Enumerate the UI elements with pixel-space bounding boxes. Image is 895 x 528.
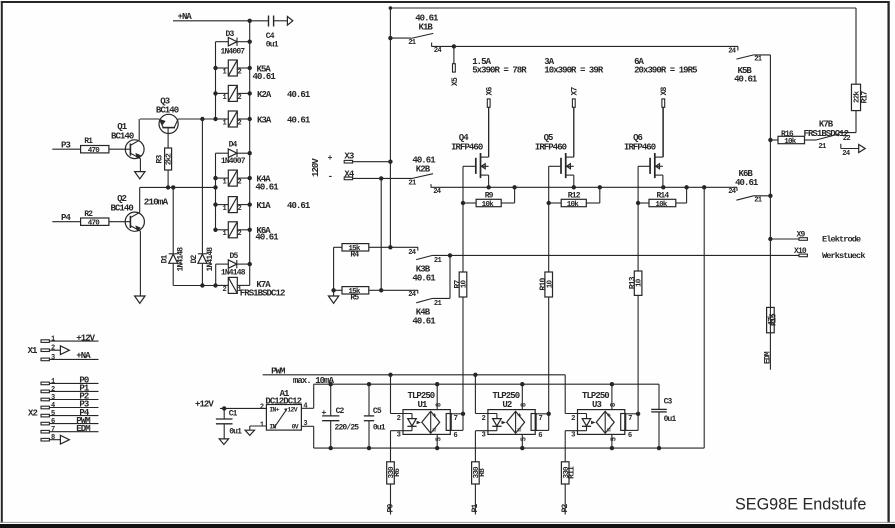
svg-text:R8: R8 (478, 468, 487, 477)
svg-text:12V: 12V (287, 407, 297, 414)
svg-text:1: 1 (222, 205, 226, 213)
svg-text:BC140: BC140 (111, 203, 134, 213)
svg-text:5: 5 (436, 437, 444, 441)
svg-text:R6: R6 (393, 468, 402, 477)
svg-text:X9: X9 (797, 230, 806, 239)
svg-text:40.61: 40.61 (412, 273, 436, 283)
svg-text:1N4148: 1N4148 (221, 269, 246, 278)
svg-text:=: = (432, 428, 436, 436)
svg-text:1N4007: 1N4007 (221, 157, 246, 166)
svg-text:C2: C2 (336, 407, 345, 416)
svg-text:R10: R10 (539, 278, 548, 291)
svg-text:4: 4 (51, 402, 55, 410)
svg-text:1N4148: 1N4148 (206, 247, 215, 272)
svg-text:2: 2 (222, 286, 226, 294)
svg-text:470: 470 (88, 147, 101, 155)
svg-text:D3: D3 (226, 30, 235, 39)
svg-text:1: 1 (222, 68, 226, 76)
svg-text:2: 2 (260, 404, 264, 412)
svg-text:1N4007: 1N4007 (221, 47, 246, 56)
svg-text:2: 2 (482, 415, 486, 423)
svg-text:IRFP460: IRFP460 (535, 143, 567, 153)
svg-text:7: 7 (51, 426, 55, 434)
svg-text:K2A: K2A (257, 90, 272, 100)
svg-text:U2: U2 (502, 400, 511, 410)
svg-text:2: 2 (397, 415, 401, 423)
svg-text:210mA: 210mA (144, 196, 169, 207)
svg-text:470: 470 (88, 220, 101, 228)
svg-text:7: 7 (454, 415, 458, 423)
svg-text:X1: X1 (28, 346, 38, 356)
svg-text:X2: X2 (28, 408, 37, 418)
svg-text:0u1: 0u1 (266, 40, 279, 49)
svg-text:2: 2 (51, 345, 55, 353)
svg-text:BC140: BC140 (156, 106, 179, 116)
svg-text:R12: R12 (568, 192, 581, 201)
svg-text:5: 5 (521, 437, 529, 441)
svg-text:+NA: +NA (76, 351, 91, 361)
svg-text:8: 8 (51, 434, 55, 442)
svg-text:6: 6 (51, 418, 55, 426)
svg-text:X10: X10 (794, 247, 807, 256)
svg-text:8: 8 (521, 403, 529, 407)
svg-text:+12V: +12V (76, 333, 95, 343)
svg-text:Werkstueck: Werkstueck (822, 251, 865, 261)
svg-text:120V: 120V (311, 158, 321, 177)
svg-text:EDM: EDM (763, 351, 772, 364)
svg-text:10k: 10k (482, 201, 495, 209)
svg-text:0u1: 0u1 (373, 424, 386, 433)
svg-text:40.61: 40.61 (735, 178, 759, 188)
svg-text:D1: D1 (161, 254, 170, 263)
svg-text:1: 1 (51, 378, 55, 386)
svg-text:40.61: 40.61 (287, 201, 311, 211)
svg-text:1: 1 (51, 336, 55, 344)
svg-text:R1: R1 (84, 137, 93, 146)
svg-text:R14: R14 (656, 192, 669, 201)
svg-text:-: - (328, 172, 332, 182)
svg-text:C5: C5 (373, 407, 382, 416)
svg-text:K2B: K2B (416, 164, 431, 174)
svg-text:Q1: Q1 (117, 122, 127, 132)
svg-text:R13: R13 (629, 276, 638, 289)
svg-text:2: 2 (237, 230, 241, 238)
svg-text:2: 2 (237, 205, 241, 213)
svg-text:5: 5 (51, 410, 55, 418)
svg-text:2: 2 (571, 415, 575, 423)
svg-text:P2: P2 (561, 503, 570, 512)
svg-text:0u1: 0u1 (229, 428, 242, 437)
svg-text:R4: R4 (350, 251, 359, 260)
svg-text:K1A: K1A (256, 201, 271, 211)
svg-text:=: = (517, 428, 521, 436)
svg-text:X5: X5 (451, 77, 460, 86)
svg-text:P1: P1 (471, 503, 480, 512)
svg-text:K3A: K3A (257, 115, 272, 125)
svg-text:IN: IN (269, 423, 276, 430)
svg-text:4: 4 (303, 403, 307, 411)
svg-text:1N4148: 1N4148 (177, 247, 186, 272)
svg-text:40.61: 40.61 (287, 115, 311, 125)
svg-text:IRFP460: IRFP460 (451, 143, 483, 153)
svg-text:40.61: 40.61 (287, 90, 311, 100)
svg-text:R9: R9 (485, 192, 494, 201)
svg-text:8: 8 (435, 403, 443, 407)
svg-text:R11: R11 (568, 466, 577, 479)
svg-text:Elektrode: Elektrode (822, 235, 861, 245)
svg-text:7: 7 (628, 415, 632, 423)
svg-text:3: 3 (51, 354, 55, 362)
svg-text:X8: X8 (660, 87, 669, 96)
svg-text:2: 2 (237, 119, 241, 127)
svg-text:40.61: 40.61 (412, 316, 436, 326)
svg-text:10k: 10k (655, 201, 668, 209)
svg-text:+: + (517, 412, 521, 420)
svg-text:D4: D4 (229, 140, 238, 149)
svg-text:X7: X7 (570, 87, 579, 96)
svg-text:R15: R15 (770, 313, 779, 326)
svg-text:5x390R = 78R: 5x390R = 78R (472, 66, 527, 76)
svg-text:20x390R = 19R5: 20x390R = 19R5 (634, 66, 697, 76)
svg-text:8: 8 (610, 403, 618, 407)
svg-text:C3: C3 (664, 398, 673, 407)
svg-text:R16: R16 (781, 130, 794, 139)
svg-text:SEG98E Endstufe: SEG98E Endstufe (735, 496, 866, 514)
svg-text:3: 3 (571, 432, 575, 440)
svg-text:6: 6 (628, 432, 632, 440)
svg-text:5: 5 (610, 437, 618, 441)
svg-text:P0: P0 (386, 503, 395, 512)
svg-text:R3: R3 (156, 155, 165, 164)
svg-text:10k: 10k (567, 201, 580, 209)
svg-text:+12V: +12V (195, 400, 214, 410)
svg-text:K1B: K1B (419, 22, 434, 32)
svg-text:+: + (607, 412, 611, 420)
svg-text:2: 2 (237, 94, 241, 102)
svg-text:40.61: 40.61 (734, 75, 758, 85)
svg-text:+: + (432, 412, 436, 420)
svg-text:40.61: 40.61 (255, 233, 279, 243)
svg-text:3: 3 (397, 432, 401, 440)
svg-text:IRFP460: IRFP460 (624, 143, 656, 153)
svg-text:U3: U3 (592, 400, 601, 410)
svg-text:3: 3 (303, 420, 307, 428)
svg-text:0u1: 0u1 (664, 415, 677, 424)
svg-text:=: = (607, 428, 611, 436)
svg-text:40.61: 40.61 (255, 183, 279, 193)
svg-text:X6: X6 (485, 87, 494, 96)
svg-text:R7: R7 (453, 280, 462, 289)
svg-text:3: 3 (51, 394, 55, 402)
svg-text:C1: C1 (229, 410, 238, 419)
svg-text:2: 2 (51, 386, 55, 394)
svg-text:FRS1BSDC12: FRS1BSDC12 (240, 288, 285, 298)
svg-text:1: 1 (222, 94, 226, 102)
svg-text:D5: D5 (230, 252, 239, 261)
svg-text:R5: R5 (350, 294, 359, 303)
svg-text:220/25: 220/25 (335, 424, 360, 433)
svg-text:6: 6 (538, 432, 542, 440)
svg-text:IN+: IN+ (269, 407, 279, 414)
svg-text:7: 7 (539, 415, 543, 423)
svg-text:D2: D2 (190, 254, 199, 263)
svg-text:40.61: 40.61 (253, 72, 277, 82)
svg-text:3: 3 (482, 432, 486, 440)
svg-text:1: 1 (222, 179, 226, 187)
svg-text:EDM: EDM (76, 424, 90, 434)
svg-text:2: 2 (237, 68, 241, 76)
svg-text:U1: U1 (418, 400, 428, 410)
svg-text:R2: R2 (84, 210, 93, 219)
svg-text:2: 2 (237, 179, 241, 187)
svg-text:6: 6 (453, 432, 457, 440)
svg-text:1: 1 (260, 421, 264, 429)
svg-text:10x390R = 39R: 10x390R = 39R (544, 66, 604, 76)
svg-text:BC140: BC140 (111, 131, 134, 141)
svg-text:R17: R17 (861, 90, 870, 103)
svg-text:22: 22 (843, 135, 851, 143)
svg-text:0V: 0V (292, 423, 299, 430)
svg-text:2k2: 2k2 (166, 153, 174, 166)
svg-text:1: 1 (222, 119, 226, 127)
svg-text:1: 1 (222, 230, 226, 238)
svg-text:10k: 10k (784, 138, 797, 146)
svg-text:+NA: +NA (178, 12, 193, 22)
